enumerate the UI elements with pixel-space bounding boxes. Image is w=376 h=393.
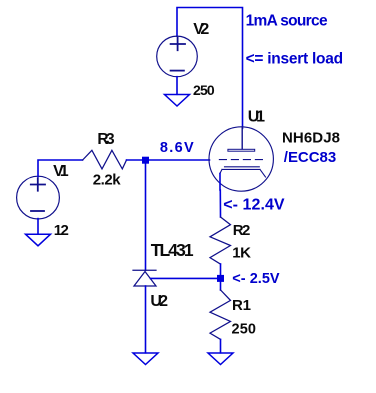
voltage source V2 [157, 36, 198, 77]
ground under V2 [165, 95, 190, 107]
resistor R1 [210, 290, 231, 340]
svg-text:12: 12 [54, 222, 69, 239]
svg-text:TL431: TL431 [151, 240, 194, 260]
wire TL431 anode down [145, 286, 147, 353]
svg-text:250: 250 [232, 321, 257, 337]
ground under R1 [208, 353, 233, 365]
svg-text:R2: R2 [233, 222, 251, 239]
wire V1 bottom stub [37, 219, 39, 234]
svg-text:R1: R1 [232, 297, 251, 314]
svg-text:U2: U2 [150, 293, 168, 310]
svg-text:V2: V2 [193, 21, 209, 38]
wire R1 bottom stub [220, 339, 222, 352]
voltage source V1 [17, 176, 60, 219]
wire TL431 reference to 2.5V junction [151, 277, 218, 279]
svg-text:1mA source: 1mA source [246, 12, 328, 29]
svg-text:V1: V1 [53, 163, 69, 180]
svg-text:<= insert load: <= insert load [246, 50, 344, 67]
triode U1 plate [228, 127, 255, 151]
svg-text:<- 2.5V: <- 2.5V [232, 271, 280, 287]
node junction 2.5V [217, 275, 224, 282]
svg-text:<- 12.4V: <- 12.4V [223, 197, 285, 214]
wire top rail from V2 to U1 plate [177, 8, 243, 129]
triode U1 grid (dashed) [219, 159, 266, 161]
triode U1 cathode [220, 167, 266, 177]
wire junction down to TL431 [145, 164, 147, 271]
node junction 8.6V [142, 157, 149, 164]
resistor R3 [83, 150, 127, 169]
svg-text:1K: 1K [232, 245, 251, 262]
wire V1 top to R3 [38, 160, 83, 177]
wire V2 bottom stub [176, 77, 178, 95]
wire R3 to grid of U1 [127, 159, 210, 161]
TL431 U2 symbol [133, 270, 156, 286]
svg-text:R3: R3 [97, 131, 115, 148]
svg-text:8.6V: 8.6V [160, 140, 194, 156]
svg-text:250: 250 [193, 82, 215, 98]
wire cathode lead down to R2 [219, 174, 222, 218]
svg-text:NH6DJ8: NH6DJ8 [282, 130, 340, 147]
svg-text:U1: U1 [248, 109, 265, 126]
wire junction down to R1 [220, 282, 222, 290]
ground under TL431 [133, 353, 158, 365]
wire R2 bottom to junction [220, 264, 222, 275]
svg-text:2.2k: 2.2k [93, 172, 122, 189]
svg-text:/ECC83: /ECC83 [284, 149, 336, 166]
resistor R2 [210, 217, 231, 264]
ground under V1 [26, 234, 51, 246]
triode U1 envelope [209, 127, 273, 191]
